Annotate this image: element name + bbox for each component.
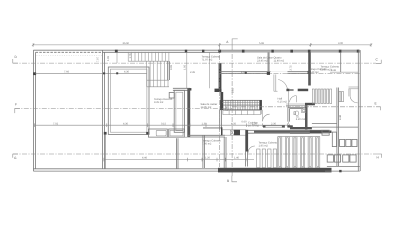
svg-text:5.96: 5.96 — [259, 42, 265, 45]
svg-text:1.20: 1.20 — [205, 157, 211, 160]
hall south wall — [286, 89, 308, 92]
svg-text:6.15 m2: 6.15 m2 — [278, 100, 288, 103]
terrace west boundary line — [186, 52, 188, 88]
svg-text:1.30: 1.30 — [202, 122, 208, 125]
hall west wall line — [288, 91, 290, 107]
svg-text:1.05: 1.05 — [107, 55, 110, 61]
right wing horizontal wall y127 — [312, 123, 358, 127]
axis line dash-dot y73.6 — [220, 73, 361, 75]
svg-text:3.20 m2: 3.20 m2 — [296, 118, 306, 121]
garage slats group A (tall, right) — [278, 137, 320, 168]
axis F marker left — [15, 103, 20, 113]
outer wall left (double line) — [33, 50, 35, 171]
axis D-C dash-dot line — [13, 62, 376, 64]
svg-text:2.85: 2.85 — [231, 87, 234, 93]
wall right of pool (thick dark) — [187, 88, 190, 137]
planter boxes south of living room — [149, 129, 188, 137]
dim line 7.66 left terrace — [33, 70, 105, 74]
pool narrow rect — [174, 90, 184, 132]
svg-text:(1.45 m2): (1.45 m2) — [321, 68, 332, 71]
axis H marker right — [377, 154, 382, 160]
posts to bottom wall — [104, 134, 106, 168]
svg-text:0.60: 0.60 — [242, 121, 248, 124]
interior dim line y125 — [35, 122, 291, 127]
room rect left (living) double border — [108, 67, 149, 134]
axis B marker bottom — [227, 176, 237, 183]
dark wall stub left of main stair — [219, 63, 222, 89]
svg-text:1.76: 1.76 — [129, 53, 132, 59]
hall door arc — [290, 96, 297, 103]
toilet — [295, 111, 299, 115]
outer wall top right part (gray band) — [220, 50, 360, 53]
room label: Cozinha — [248, 122, 259, 128]
tall box right section — [332, 132, 336, 147]
interior wall vertical x103 — [103, 50, 105, 169]
main stair block — [220, 100, 261, 110]
svg-text:2.30: 2.30 — [271, 122, 277, 125]
axis F dash-dot line — [15, 107, 232, 109]
dark corner marks of room bottom — [104, 132, 107, 135]
right slats top group1 — [312, 89, 331, 104]
svg-text:23.45 m2: 23.45 m2 — [257, 59, 268, 62]
room label: Terraco Coberto 71.97 — [202, 56, 221, 62]
svg-text:4.30: 4.30 — [124, 71, 130, 74]
bottom dim line 4.46 / 1.25 / 1.40 — [104, 157, 254, 162]
wall band above pool — [173, 88, 192, 90]
bottom-right wall thin segment — [325, 166, 360, 172]
eave dotted line left terrace — [37, 55, 103, 57]
svg-text:3.00: 3.00 — [338, 42, 344, 45]
kitchen north edge lines — [203, 127, 221, 130]
room label: Terraco 1.95 — [259, 142, 278, 148]
axis C marker right — [376, 58, 382, 64]
svg-text:7.07: 7.07 — [97, 56, 100, 62]
dim line right terrace 4.46 — [330, 69, 358, 72]
garage slats group B (short, left) — [257, 149, 277, 168]
svg-text:2.75: 2.75 — [289, 65, 292, 71]
svg-text:4.46: 4.46 — [331, 69, 337, 72]
door arc terrace to deck — [248, 146, 255, 153]
room label: Quarto — [274, 57, 285, 63]
svg-text:10.70 m2: 10.70 m2 — [248, 124, 259, 127]
south wall double line — [248, 129, 322, 131]
svg-text:11.40 m2: 11.40 m2 — [308, 71, 319, 74]
bottom thick dark wall band — [218, 168, 332, 173]
axis D marker left — [13, 55, 18, 63]
door arc dining (quarto door) — [274, 75, 288, 92]
svg-text:4.46: 4.46 — [142, 157, 148, 160]
dim line 4.30 inside room — [106, 71, 148, 75]
lower terrace stair long run treads — [147, 61, 169, 87]
svg-text:E: E — [375, 102, 377, 106]
svg-text:1.95 m2: 1.95 m2 — [259, 144, 269, 147]
svg-text:F: F — [15, 103, 17, 107]
kitchen counter row — [221, 127, 246, 135]
row1 boxes right section — [340, 139, 357, 146]
top dimension line 36.60 — [32, 42, 372, 47]
svg-text:4.30: 4.30 — [123, 122, 129, 125]
svg-text:2.20: 2.20 — [226, 105, 229, 111]
room label: Terraco Coberto 7.95 — [202, 140, 221, 146]
I.S. bathroom walls — [288, 105, 308, 129]
terrace east boundary line — [209, 52, 211, 88]
room label: I.S. — [296, 116, 306, 121]
two stacked bars at band end — [322, 130, 329, 132]
outer wall right (double line) — [358, 50, 360, 171]
door arc kitchen hall — [262, 110, 270, 121]
wall between slat groups — [337, 88, 339, 167]
columns along top wall — [115, 50, 360, 53]
door top right — [349, 87, 360, 103]
wall right of upper stair — [168, 61, 170, 80]
dark block above I.S. east — [305, 103, 315, 106]
room label: Sala Jantar — [201, 103, 218, 109]
dining room wall vertical x272 — [268, 52, 270, 73]
column at left wall — [33, 72, 36, 75]
slat support line — [278, 136, 320, 138]
kitchen west wall — [220, 110, 222, 130]
window mullion below column — [116, 52, 118, 63]
axis A marker — [226, 39, 237, 45]
svg-text:3.05: 3.05 — [170, 64, 173, 70]
svg-text:9.35 m2: 9.35 m2 — [154, 101, 164, 104]
outer wall top left part (double thin line) — [33, 50, 219, 52]
room label: Sala de Estar — [257, 57, 273, 63]
dark band y131 — [310, 131, 332, 133]
bedroom wall vertical dark x309 — [308, 52, 311, 85]
room label: Terraco Descoberto — [154, 98, 173, 104]
svg-text:1.05: 1.05 — [183, 64, 186, 70]
right slats top group2 — [339, 92, 344, 102]
column footing box — [169, 93, 174, 99]
small label top right corner — [321, 66, 340, 72]
axis G-H dash-dot line — [13, 153, 378, 155]
svg-text:4.46: 4.46 — [339, 114, 342, 120]
sill band segments — [263, 125, 285, 127]
dark wall right of terrace — [245, 130, 248, 152]
row2 boxes right section — [327, 155, 356, 162]
hall wall junction blob — [308, 71, 311, 74]
axis line vertical x219 — [219, 46, 221, 167]
wall vertical x340 top — [340, 52, 342, 72]
axis G marker left — [13, 154, 18, 160]
outer wall bottom-left (double line) — [33, 169, 219, 171]
dark band below I.S. — [290, 127, 312, 129]
svg-text:B: B — [227, 179, 229, 183]
svg-text:7.95 m2: 7.95 m2 — [202, 142, 212, 145]
svg-text:2.45: 2.45 — [190, 71, 196, 74]
svg-text:7.66: 7.66 — [64, 70, 70, 73]
svg-text:4.35: 4.35 — [231, 122, 237, 125]
stair upper treads — [128, 52, 169, 61]
I.S. door arc — [288, 122, 294, 128]
svg-text:36.60: 36.60 — [123, 42, 130, 45]
svg-text:7.02: 7.02 — [53, 122, 59, 125]
svg-text:1.61: 1.61 — [241, 71, 247, 74]
svg-text:0.15: 0.15 — [161, 122, 167, 125]
hall wall horizontal y72 — [220, 71, 309, 74]
svg-text:1.40: 1.40 — [234, 157, 240, 160]
shower tray — [302, 109, 306, 113]
room label: small right — [308, 68, 327, 74]
terrace walls near kitchen — [203, 136, 226, 169]
room label: Hall — [278, 98, 288, 104]
axis A vertical dash-dot line — [231, 45, 233, 176]
axis E marker right — [375, 102, 381, 111]
lines above I.S. — [286, 103, 305, 105]
vertical dim texts — [97, 53, 343, 120]
svg-text:14.85 m2: 14.85 m2 — [201, 106, 212, 109]
svg-text:71.97 m2: 71.97 m2 — [202, 58, 213, 61]
wall below dining (horizontal) — [187, 135, 225, 137]
svg-text:11.40 m2: 11.40 m2 — [274, 59, 285, 62]
axis E dash-dot line — [232, 106, 376, 108]
under-stair cabinets — [223, 110, 261, 114]
